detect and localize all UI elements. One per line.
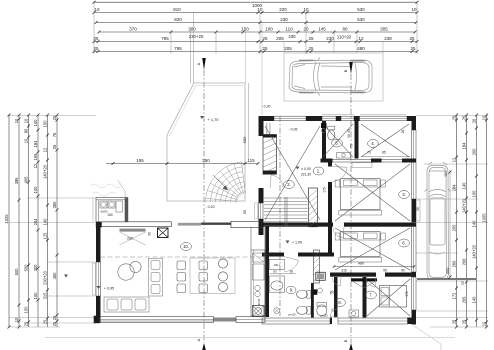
svg-text:+ 1,00: + 1,00 bbox=[292, 241, 302, 245]
svg-text:25: 25 bbox=[308, 36, 314, 41]
svg-text:230+20: 230+20 bbox=[43, 270, 48, 284]
svg-text:205: 205 bbox=[284, 46, 292, 51]
svg-text:p=125: p=125 bbox=[288, 313, 296, 317]
svg-text:230: 230 bbox=[288, 34, 296, 39]
svg-text:140+20: 140+20 bbox=[43, 164, 48, 178]
svg-text:195: 195 bbox=[136, 158, 144, 163]
svg-text:795: 795 bbox=[174, 46, 182, 51]
svg-text:284: 284 bbox=[452, 184, 457, 192]
svg-text:90: 90 bbox=[401, 269, 405, 273]
svg-text:370: 370 bbox=[129, 27, 137, 32]
svg-text:140: 140 bbox=[43, 218, 48, 226]
svg-text:- 0,05: - 0,05 bbox=[289, 128, 298, 132]
svg-text:A: A bbox=[196, 62, 201, 65]
svg-text:20: 20 bbox=[303, 27, 309, 32]
svg-text:25: 25 bbox=[43, 319, 48, 324]
svg-text:315: 315 bbox=[341, 269, 347, 273]
svg-text:95: 95 bbox=[383, 269, 387, 273]
svg-text:150: 150 bbox=[241, 27, 249, 32]
svg-text:1005: 1005 bbox=[482, 213, 487, 223]
svg-text:5.: 5. bbox=[335, 141, 339, 146]
svg-text:p=125: p=125 bbox=[320, 314, 328, 318]
svg-text:150: 150 bbox=[107, 213, 113, 217]
svg-text:1025: 1025 bbox=[4, 214, 9, 224]
svg-text:10: 10 bbox=[482, 321, 487, 326]
svg-text:220: 220 bbox=[279, 7, 287, 12]
svg-text:25: 25 bbox=[462, 115, 467, 120]
svg-text:305: 305 bbox=[380, 27, 388, 32]
svg-text:25: 25 bbox=[52, 144, 57, 149]
svg-text:184: 184 bbox=[462, 142, 467, 150]
svg-text:26: 26 bbox=[472, 118, 477, 123]
svg-text:140: 140 bbox=[472, 296, 477, 304]
svg-text:100: 100 bbox=[33, 119, 38, 127]
svg-text:25: 25 bbox=[52, 321, 57, 326]
svg-text:230: 230 bbox=[280, 17, 288, 22]
svg-text:140: 140 bbox=[462, 182, 467, 190]
svg-text:B: B bbox=[343, 339, 348, 342]
svg-text:8.: 8. bbox=[338, 300, 342, 305]
svg-text:230+20: 230+20 bbox=[189, 34, 204, 39]
svg-text:90: 90 bbox=[347, 134, 351, 138]
svg-text:10: 10 bbox=[24, 118, 29, 123]
svg-text:90: 90 bbox=[242, 209, 247, 214]
svg-text:7.: 7. bbox=[369, 293, 373, 298]
svg-text:380: 380 bbox=[52, 201, 57, 209]
svg-text:140: 140 bbox=[472, 220, 477, 228]
svg-text:± 0,00: ± 0,00 bbox=[301, 167, 311, 171]
svg-text:10: 10 bbox=[257, 7, 263, 12]
svg-text:10: 10 bbox=[411, 7, 417, 12]
svg-text:90: 90 bbox=[24, 128, 29, 133]
svg-text:25: 25 bbox=[331, 290, 335, 294]
svg-text:75: 75 bbox=[350, 144, 354, 148]
svg-text:530: 530 bbox=[357, 7, 365, 12]
svg-text:+ 1,70: + 1,70 bbox=[208, 117, 220, 122]
svg-text:25: 25 bbox=[452, 319, 457, 324]
svg-text:405: 405 bbox=[24, 176, 29, 184]
svg-text:810: 810 bbox=[173, 7, 181, 12]
svg-text:25: 25 bbox=[462, 319, 467, 324]
svg-text:238: 238 bbox=[384, 36, 392, 41]
svg-text:12: 12 bbox=[33, 163, 38, 168]
svg-text:10: 10 bbox=[482, 115, 487, 120]
svg-text:10.: 10. bbox=[183, 244, 189, 249]
svg-text:10: 10 bbox=[303, 7, 309, 12]
svg-text:175: 175 bbox=[323, 187, 327, 193]
svg-text:265: 265 bbox=[462, 296, 467, 304]
svg-text:165: 165 bbox=[33, 153, 38, 161]
svg-text:450: 450 bbox=[52, 272, 57, 280]
svg-text:200: 200 bbox=[452, 224, 457, 232]
svg-text:25: 25 bbox=[262, 36, 268, 41]
svg-text:+ 0,95: + 0,95 bbox=[104, 287, 114, 291]
svg-text:480: 480 bbox=[358, 262, 364, 266]
svg-text:25: 25 bbox=[409, 36, 415, 41]
svg-text:25: 25 bbox=[452, 115, 457, 120]
svg-text:266: 266 bbox=[462, 258, 467, 266]
svg-text:85: 85 bbox=[382, 151, 386, 155]
svg-text:480: 480 bbox=[357, 46, 365, 51]
svg-text:26: 26 bbox=[401, 130, 405, 134]
svg-text:300: 300 bbox=[33, 264, 38, 272]
svg-text:284: 284 bbox=[33, 218, 38, 226]
svg-text:300: 300 bbox=[188, 27, 196, 32]
svg-text:172: 172 bbox=[405, 291, 409, 297]
svg-text:45: 45 bbox=[347, 129, 351, 133]
svg-text:500: 500 bbox=[24, 264, 29, 272]
svg-text:10: 10 bbox=[14, 317, 19, 322]
svg-text:315: 315 bbox=[43, 292, 48, 300]
svg-text:500: 500 bbox=[14, 268, 19, 276]
svg-text:60/60: 60/60 bbox=[101, 210, 108, 214]
svg-text:25: 25 bbox=[262, 46, 268, 51]
svg-text:- 0,20: - 0,20 bbox=[262, 105, 271, 109]
svg-text:205: 205 bbox=[276, 36, 284, 41]
svg-text:450: 450 bbox=[445, 267, 450, 274]
svg-text:80: 80 bbox=[342, 27, 348, 32]
svg-text:A: A bbox=[196, 338, 201, 341]
svg-text:10: 10 bbox=[24, 138, 29, 143]
svg-text:- 0,20: - 0,20 bbox=[205, 205, 214, 209]
svg-text:100: 100 bbox=[33, 292, 38, 300]
svg-text:795: 795 bbox=[161, 36, 169, 41]
svg-text:1.: 1. bbox=[317, 169, 321, 174]
svg-text:26: 26 bbox=[416, 207, 420, 211]
svg-text:100: 100 bbox=[43, 120, 48, 128]
svg-text:90 90: 90 90 bbox=[257, 298, 261, 305]
svg-text:350: 350 bbox=[202, 158, 210, 163]
svg-text:12: 12 bbox=[452, 157, 457, 162]
svg-text:10: 10 bbox=[14, 118, 19, 123]
svg-text:221,30: 221,30 bbox=[301, 173, 311, 177]
svg-text:140+20: 140+20 bbox=[462, 198, 467, 212]
svg-text:12: 12 bbox=[461, 281, 465, 285]
svg-text:395: 395 bbox=[14, 177, 19, 185]
svg-text:100: 100 bbox=[24, 306, 29, 314]
svg-text:180 L: 180 L bbox=[274, 263, 281, 267]
svg-text:2.: 2. bbox=[287, 182, 291, 187]
svg-text:12: 12 bbox=[358, 36, 364, 41]
svg-text:260: 260 bbox=[472, 148, 477, 156]
svg-text:145: 145 bbox=[318, 27, 326, 32]
svg-text:140+20: 140+20 bbox=[472, 244, 477, 258]
svg-text:110: 110 bbox=[285, 27, 293, 32]
svg-text:4.: 4. bbox=[371, 141, 375, 146]
svg-text:230: 230 bbox=[326, 36, 334, 41]
svg-text:530: 530 bbox=[357, 17, 365, 22]
svg-text:36: 36 bbox=[148, 232, 152, 236]
svg-text:110+20: 110+20 bbox=[337, 34, 352, 39]
svg-text:10: 10 bbox=[94, 7, 100, 12]
svg-text:25: 25 bbox=[93, 36, 99, 41]
svg-text:100: 100 bbox=[265, 27, 273, 32]
svg-text:25: 25 bbox=[410, 46, 416, 51]
svg-text:266: 266 bbox=[452, 260, 457, 268]
svg-text:25: 25 bbox=[24, 321, 29, 326]
svg-text:3.: 3. bbox=[402, 192, 406, 197]
svg-text:25: 25 bbox=[308, 46, 314, 51]
svg-text:83: 83 bbox=[273, 270, 277, 274]
svg-text:25: 25 bbox=[52, 115, 57, 120]
svg-text:100: 100 bbox=[33, 186, 38, 194]
svg-text:6.: 6. bbox=[402, 241, 406, 246]
svg-text:125: 125 bbox=[43, 232, 48, 240]
svg-text:B: B bbox=[343, 69, 348, 72]
svg-text:12: 12 bbox=[43, 147, 48, 152]
svg-text:73: 73 bbox=[367, 151, 371, 155]
svg-text:75: 75 bbox=[52, 132, 57, 137]
svg-text:184: 184 bbox=[33, 140, 38, 148]
svg-text:820: 820 bbox=[174, 17, 182, 22]
svg-text:100: 100 bbox=[472, 190, 477, 198]
svg-text:172: 172 bbox=[452, 292, 457, 300]
svg-text:25: 25 bbox=[93, 46, 99, 51]
svg-text:9.: 9. bbox=[290, 288, 294, 293]
svg-text:600: 600 bbox=[242, 136, 247, 143]
